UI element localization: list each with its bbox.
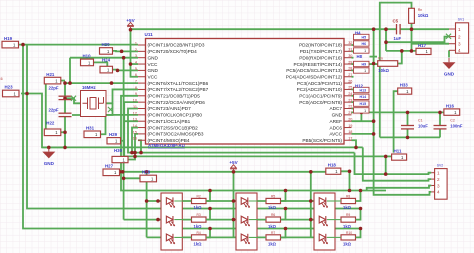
wire GND pin3 row <box>70 57 138 59</box>
svg-text:19: 19 <box>348 124 352 128</box>
wire GND row to H16 <box>352 111 444 113</box>
node junction (141,152.6) <box>139 151 143 155</box>
wire +5V2 down to g2 rows <box>233 172 235 238</box>
node junction (122.7,171.8) <box>121 170 125 174</box>
node junction (401.8,50.9) <box>400 49 404 53</box>
svg-text:H6: H6 <box>361 42 366 46</box>
ground symbol top right <box>443 58 456 77</box>
wire LED11 to resistor <box>174 200 191 202</box>
node junction (385.7,174.1) <box>384 172 388 176</box>
wire g1 bus links <box>206 191 211 202</box>
wire H10 down to pin5 row <box>94 62 108 70</box>
node junction (23,44.6) <box>21 43 25 47</box>
svg-text:(PCINT6/XTAL1/TOSC1)PB6: (PCINT6/XTAL1/TOSC1)PB6 <box>148 81 209 86</box>
svg-text:10: 10 <box>133 99 137 103</box>
svg-text:VCC: VCC <box>148 62 159 67</box>
svg-text:31: 31 <box>348 48 352 52</box>
wire H19 to PD3 pin1 <box>19 44 139 46</box>
svg-text:PC4(ADC4/SDA/PCINT12): PC4(ADC4/SDA/PCINT12) <box>286 74 343 79</box>
LED D11 <box>166 197 174 207</box>
svg-text:H15: H15 <box>360 102 367 106</box>
capacitor C2 100nF <box>434 119 463 129</box>
svg-text:15: 15 <box>133 130 137 134</box>
svg-text:H13: H13 <box>360 88 367 92</box>
wire Rn2 right up to H17 line <box>398 51 402 64</box>
+5V supply mid <box>229 160 238 171</box>
node junction (123.6,178.3) <box>122 177 126 181</box>
wire IC right pin row 1 to header column <box>352 44 354 46</box>
node junction (233.5,171.8) <box>232 170 236 174</box>
header H16 <box>444 103 460 115</box>
wire H33 down to H11 <box>394 91 398 152</box>
resistor R6 1k <box>266 213 281 229</box>
wire LED22 to resistor <box>249 219 266 221</box>
node junction (70,83.1) <box>68 81 72 85</box>
svg-text:ATMEGA328P-AU: ATMEGA328P-AU <box>148 143 185 148</box>
capacitor C1 10uF <box>401 119 428 129</box>
resistor Rn 10k horizontal <box>378 56 398 72</box>
svg-text:R9: R9 <box>346 213 350 217</box>
wire H11 to line156 <box>386 155 392 157</box>
capacitor C7 22pF <box>49 108 72 117</box>
svg-text:PB5(SCK/PCINT5): PB5(SCK/PCINT5) <box>302 138 342 143</box>
header H33 <box>398 83 412 95</box>
no-connect cross connector pin2 <box>446 34 451 39</box>
svg-text:+5V: +5V <box>126 18 135 23</box>
svg-text:H33: H33 <box>400 83 409 88</box>
node junction (411.5,29.2) <box>410 27 414 31</box>
svg-text:H20: H20 <box>102 42 111 47</box>
wire H27 tap to rail <box>120 171 123 173</box>
svg-text:3: 3 <box>135 54 137 58</box>
svg-text:13: 13 <box>133 118 137 122</box>
svg-text:H16: H16 <box>446 103 455 108</box>
svg-text:C6: C6 <box>0 77 3 81</box>
svg-text:Rn: Rn <box>378 56 383 60</box>
svg-text:3: 3 <box>437 183 440 188</box>
header H29 <box>107 132 121 144</box>
svg-text:H21: H21 <box>46 72 55 77</box>
svg-text:GND: GND <box>148 55 159 60</box>
svg-text:16: 16 <box>133 137 137 141</box>
wire rail down to LED row3 feed <box>146 172 148 238</box>
svg-text:H14: H14 <box>360 95 367 99</box>
svg-text:(PCINT2/SS/OC1B)PB2: (PCINT2/SS/OC1B)PB2 <box>148 125 199 130</box>
node junction (360.5,208.5) <box>359 207 363 211</box>
node junction (285.5,228.5) <box>284 227 288 231</box>
svg-text:1kΩ: 1kΩ <box>194 242 203 247</box>
svg-text:Rn: Rn <box>418 8 423 12</box>
node junction (349.5,171.3) <box>348 170 352 174</box>
resistor R8 1k <box>341 194 356 210</box>
svg-text:14: 14 <box>133 124 137 128</box>
svg-text:PC3(ADC3/PCINT11): PC3(ADC3/PCINT11) <box>297 81 342 86</box>
wire vertical x411 +5V to H17 line <box>411 29 413 51</box>
node junction (440,112.4) <box>438 111 442 115</box>
svg-text:11: 11 <box>133 105 137 109</box>
svg-text:12: 12 <box>133 111 137 115</box>
svg-text:28: 28 <box>348 67 352 71</box>
node junction (361.4,112.4) <box>360 111 364 115</box>
wire IC right pin row 6 to header column <box>352 76 354 78</box>
LED D12 <box>166 216 174 226</box>
svg-text:22: 22 <box>348 105 352 109</box>
header H28 <box>140 170 157 182</box>
wire step2 to bottom connector pin2 <box>363 147 432 180</box>
svg-text:R3: R3 <box>197 213 201 217</box>
node junction (233.5,219.6) <box>232 218 236 222</box>
svg-text:U11: U11 <box>145 32 154 37</box>
connector SV2 bottom right <box>431 164 447 200</box>
svg-text:30: 30 <box>348 54 352 58</box>
svg-text:ADC6: ADC6 <box>329 125 342 130</box>
node junction (386,29.2) <box>384 27 388 31</box>
svg-text:GND: GND <box>148 68 159 73</box>
header H22 <box>44 121 61 136</box>
wire IC right pin row 8 to header column <box>352 88 354 90</box>
svg-text:H27: H27 <box>105 164 114 169</box>
wire +5V down to VCC pins <box>131 29 139 77</box>
svg-text:1kΩ: 1kΩ <box>194 224 203 229</box>
svg-text:27: 27 <box>348 73 352 77</box>
svg-text:PD1(TXD/PCINT17): PD1(TXD/PCINT17) <box>300 49 343 54</box>
LED D23 <box>241 234 249 244</box>
svg-text:H9: H9 <box>361 62 366 66</box>
svg-text:H8: H8 <box>357 54 363 59</box>
header H17 <box>416 43 431 55</box>
svg-text:3: 3 <box>458 42 461 47</box>
node junction (135,156.4) <box>133 155 137 159</box>
wire LED33 to resistor <box>327 236 341 238</box>
node junction (373.6,29.2) <box>372 27 376 31</box>
svg-text:PD0(RXD/PCINT16): PD0(RXD/PCINT16) <box>299 55 342 60</box>
wire +5V rail mid under IC <box>120 171 326 173</box>
node junction (65,83.1) <box>63 81 67 85</box>
svg-text:H30: H30 <box>114 148 123 153</box>
svg-text:(PCINT0/CLKO/ICP1)PB0: (PCINT0/CLKO/ICP1)PB0 <box>148 113 203 118</box>
resistor Rn 10k pullup vertical <box>409 8 429 23</box>
node junction (285.5,208.5) <box>284 207 288 211</box>
node junction (111.5,83.1) <box>110 81 114 85</box>
svg-text:1kΩ: 1kΩ <box>268 224 277 229</box>
svg-text:(PCINT22/OC0A/AIN0)PD6: (PCINT22/OC0A/AIN0)PD6 <box>148 100 206 105</box>
svg-text:(PCINT4/MISO)PB4: (PCINT4/MISO)PB4 <box>148 138 190 143</box>
svg-text:7: 7 <box>135 80 137 84</box>
resistor R5 1k <box>266 194 281 210</box>
node junction (373.6,63.5) <box>372 62 376 66</box>
header column H4-H15 <box>354 31 370 114</box>
wire XTAL1 pin7 to cap C6 <box>65 83 138 96</box>
node junction (135,152.6) <box>133 151 137 155</box>
node junction (349.5,190.5) <box>348 189 352 193</box>
wire reset row to Rn2 <box>352 63 378 65</box>
wire H28 to pin3 vertical <box>124 177 140 179</box>
svg-text:ADC7: ADC7 <box>329 106 342 111</box>
svg-text:R4: R4 <box>197 231 201 235</box>
node junction (210,228.5) <box>208 227 212 231</box>
LED D22 <box>241 216 249 226</box>
wire AREF row to +5V vertical <box>352 120 374 122</box>
svg-text:H22: H22 <box>46 121 55 126</box>
svg-text:24: 24 <box>348 92 352 96</box>
node junction (121.6,51.35) <box>120 50 124 54</box>
svg-text:22pF: 22pF <box>49 86 59 91</box>
header H21 <box>44 72 61 84</box>
wire Rn1 top loop <box>380 3 412 138</box>
node junction (385.7,156.4) <box>384 155 388 159</box>
svg-text:100nF: 100nF <box>450 123 463 128</box>
svg-text:1kΩ: 1kΩ <box>268 205 277 210</box>
svg-text:H10: H10 <box>83 54 92 59</box>
wire C2 leads <box>439 112 441 125</box>
node junction (285.5,190.5) <box>284 189 288 193</box>
wire pin9 PD5 down to bus1 <box>121 96 386 191</box>
svg-text:32: 32 <box>348 41 352 45</box>
header H30 <box>112 148 128 163</box>
LED group D2 box <box>236 193 257 250</box>
svg-text:4: 4 <box>437 190 440 195</box>
LED D31 <box>319 197 327 207</box>
node junction (65,147.4) <box>63 146 67 150</box>
wire tap to top connector pin2 <box>386 37 449 43</box>
svg-text:H23: H23 <box>5 85 14 90</box>
header H20 <box>100 42 113 54</box>
wire LED23 to resistor <box>249 236 266 238</box>
wire pin16 PB4 to line152 <box>138 140 141 152</box>
svg-text:(PCINT19/OC2B/INT1)PD3: (PCINT19/OC2B/INT1)PD3 <box>148 43 205 48</box>
node junction (310.8,171.8) <box>309 170 313 174</box>
node junction (373.6,121.2) <box>372 119 376 123</box>
wire pin12 PB0 to H31 <box>101 115 139 134</box>
svg-text:PC5(ADC5/SCL/PCINT13): PC5(ADC5/SCL/PCINT13) <box>286 68 342 73</box>
wire Rn1 bottom lead <box>411 23 413 29</box>
wire IC right pin row 10 to header column <box>352 101 354 103</box>
node junction (310.8,201) <box>309 199 313 203</box>
wire H24 to GND pin5 <box>113 69 118 72</box>
svg-text:2: 2 <box>458 34 461 39</box>
connector SV1 top right <box>449 18 469 54</box>
svg-text:H11: H11 <box>394 149 402 154</box>
svg-text:(PCINT20/XCK/T0)PD4: (PCINT20/XCK/T0)PD4 <box>148 49 198 54</box>
no-connect cross right <box>108 107 113 112</box>
svg-text:H18: H18 <box>328 163 337 168</box>
wire vertical x386 +5V to H17 node <box>385 29 387 51</box>
wire GND line below IC <box>42 146 363 148</box>
svg-text:10uF: 10uF <box>418 123 428 128</box>
svg-text:(PCINT23/AIN1)PD7: (PCINT23/AIN1)PD7 <box>148 106 192 111</box>
svg-text:SV1: SV1 <box>458 18 465 22</box>
svg-text:AREF: AREF <box>329 119 342 124</box>
node junction (123.6,57.7) <box>122 56 126 60</box>
wire IC right pin row 3 to header column <box>352 57 354 59</box>
wire pin3 node down to LED row2 <box>123 58 125 220</box>
svg-text:4: 4 <box>458 48 461 53</box>
svg-text:PC2(ADC2/PCINT10): PC2(ADC2/PCINT10) <box>297 87 343 92</box>
wire pin13 PB1 to H29 <box>121 121 139 141</box>
LED D21 <box>241 197 249 207</box>
header H18 <box>326 163 341 175</box>
svg-text:1: 1 <box>364 109 366 113</box>
wire IC right pin row 9 to header column <box>352 95 354 97</box>
wire LED31 to resistor <box>327 200 341 202</box>
wire H21 to H22 vertical <box>45 84 47 129</box>
header H27 <box>103 164 120 176</box>
svg-text:1: 1 <box>437 171 440 176</box>
wire pin14 PB2 to line152 <box>132 128 138 153</box>
svg-text:H12: H12 <box>355 83 363 88</box>
LED group D3 box <box>314 193 335 250</box>
wire PD0 H8 stub <box>370 56 378 58</box>
LED group D1 box <box>161 193 182 250</box>
header H23 <box>3 85 20 97</box>
svg-text:(PCINT1/OC1A)PB1: (PCINT1/OC1A)PB1 <box>148 119 191 124</box>
header H24 <box>100 58 113 73</box>
svg-text:23: 23 <box>348 98 352 102</box>
node junction (407.5,112.4) <box>406 111 410 115</box>
svg-text:C2: C2 <box>450 119 455 123</box>
wire H11 vertical to step1 <box>385 156 387 174</box>
node junction (210,208.5) <box>208 207 212 211</box>
svg-text:1: 1 <box>364 49 366 53</box>
svg-text:H17: H17 <box>418 43 427 48</box>
wire step3 from bus1 to bottom connector pin3 <box>367 186 432 191</box>
wire C7 to GND segment <box>64 117 66 147</box>
node junction (119.8,171.8) <box>118 170 122 174</box>
wire step1 to bottom connector pin1 <box>355 153 432 175</box>
wire LED row1 <box>147 200 314 202</box>
wire pin11 PD7 to line152 <box>128 109 355 153</box>
capacitor C5 1uF <box>393 18 402 41</box>
svg-text:SV2: SV2 <box>437 164 444 168</box>
svg-text:17: 17 <box>348 136 352 140</box>
svg-text:20: 20 <box>348 117 352 121</box>
svg-text:9: 9 <box>135 92 137 96</box>
svg-text:26: 26 <box>348 79 352 83</box>
svg-text:+5V: +5V <box>229 160 238 165</box>
wire LED row2 <box>161 219 314 221</box>
svg-text:(PCINT21/OC0B/T1)PD5: (PCINT21/OC0B/T1)PD5 <box>148 94 201 99</box>
wire pin3 down to XTAL gnd chain <box>69 58 71 83</box>
node junction (310.8,219.6) <box>309 218 313 222</box>
wire pin15 PB3 to H30 <box>129 134 139 160</box>
svg-text:GND: GND <box>44 161 55 166</box>
wire step4 +5V vertical to bottom connector pin4 <box>374 134 432 195</box>
wire pin10 PD6 to line156 <box>124 102 386 156</box>
wire crystal left lead net <box>65 98 80 103</box>
wire g3 feed vertical <box>310 172 312 238</box>
svg-text:1: 1 <box>458 27 461 32</box>
svg-text:PC0(ADC0/PCINT8): PC0(ADC0/PCINT8) <box>299 100 342 105</box>
node junction (146.6,171.8) <box>145 170 149 174</box>
svg-text:(PCINT7/XTAL2/TOSC2)PB7: (PCINT7/XTAL2/TOSC2)PB7 <box>148 87 209 92</box>
svg-text:5: 5 <box>135 67 137 71</box>
svg-text:4: 4 <box>135 60 137 64</box>
wire LED12 to resistor <box>174 219 191 221</box>
node junction (360.5,190.5) <box>359 189 363 193</box>
wire tap to H17 <box>386 50 416 52</box>
node junction (130.5,64.05) <box>129 62 133 66</box>
wire H18 to bus1 <box>341 171 350 190</box>
svg-text:22pF: 22pF <box>49 108 59 113</box>
svg-text:1uF: 1uF <box>394 36 402 41</box>
no-connect cross left <box>71 96 76 101</box>
wire left vertical bus3 from H19 node <box>23 45 361 229</box>
node junction (27,93.5) <box>25 92 29 96</box>
node junction (411.5,50.9) <box>410 49 414 53</box>
resistor R3 1k <box>192 213 207 229</box>
resistor R9 1k <box>341 213 356 229</box>
node junction (158,219.6) <box>156 218 160 222</box>
svg-text:H31: H31 <box>86 126 95 131</box>
wire GND to AREF link <box>360 112 362 121</box>
resistor R2 1k <box>192 194 207 210</box>
header H10 <box>81 54 94 66</box>
svg-text:25: 25 <box>348 86 352 90</box>
node junction (356,147.4) <box>354 146 358 150</box>
wire C6 to C7 gnd segment <box>64 100 66 113</box>
svg-text:10kΩ: 10kΩ <box>378 68 389 73</box>
wire IC right pin row 5 to header column <box>352 69 354 71</box>
svg-text:H24: H24 <box>102 58 111 63</box>
wire vertical x373 +5V to AVCC <box>373 29 375 134</box>
IC U11 ATMEGA328P-AU <box>133 32 353 148</box>
wire LED row3 <box>147 236 314 238</box>
svg-text:R6: R6 <box>271 213 275 217</box>
svg-text:1: 1 <box>364 69 366 73</box>
wire top connector pin3 feed <box>412 43 450 45</box>
svg-text:GND: GND <box>332 113 343 118</box>
resistor R7 1k <box>266 231 281 247</box>
svg-text:H4: H4 <box>355 31 361 36</box>
svg-text:R2: R2 <box>197 194 201 198</box>
svg-text:1kΩ: 1kΩ <box>268 242 277 247</box>
wire LED32 to resistor <box>327 219 341 221</box>
header H19 <box>2 36 19 48</box>
svg-text:R8: R8 <box>346 194 350 198</box>
svg-text:2: 2 <box>437 177 440 182</box>
node junction (65,98.3) <box>63 97 67 101</box>
svg-text:21: 21 <box>348 111 352 115</box>
wire top connector pin4 to GND <box>448 50 450 57</box>
svg-text:H29: H29 <box>109 132 118 137</box>
svg-text:1kΩ: 1kΩ <box>343 224 352 229</box>
node junction (146.6,201) <box>145 199 149 203</box>
node junction (65,132.25) <box>63 130 67 134</box>
wire cap bottoms joiner <box>380 136 440 138</box>
wire H21 tap <box>61 80 65 82</box>
wire GND pin5 row <box>118 69 139 71</box>
svg-text:C1: C1 <box>418 119 423 123</box>
wire crystal right to cap2 <box>72 103 113 115</box>
header H31 <box>84 126 101 138</box>
wire IC right pin row 11 to header column <box>352 108 354 110</box>
svg-text:GND: GND <box>444 72 455 77</box>
svg-text:1kΩ: 1kΩ <box>343 242 352 247</box>
svg-text:H19: H19 <box>4 36 13 41</box>
svg-text:2: 2 <box>135 48 137 52</box>
svg-text:29: 29 <box>348 60 352 64</box>
wire LED13 to resistor <box>174 236 191 238</box>
svg-text:16MHz: 16MHz <box>82 85 96 90</box>
LED D32 <box>319 216 327 226</box>
node junction (48.8,147.4) <box>47 146 51 150</box>
wire C1 leads <box>407 112 409 125</box>
svg-text:6: 6 <box>135 73 137 77</box>
node junction (130.5,29.7) <box>129 28 133 32</box>
svg-text:R7: R7 <box>271 231 275 235</box>
svg-text:C5: C5 <box>393 18 399 23</box>
svg-text:R10: R10 <box>346 231 352 235</box>
